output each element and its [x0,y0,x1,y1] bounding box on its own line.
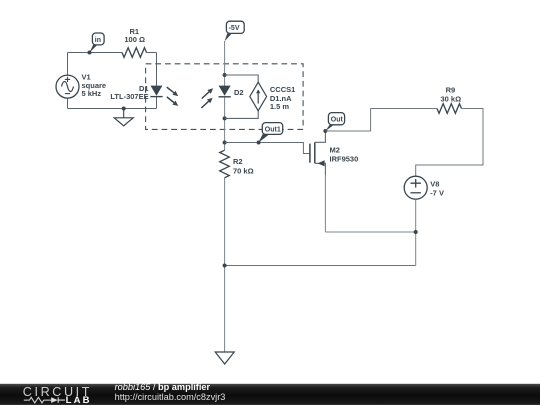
wire Out to R9 [325,109,437,132]
svg-text:-5V: -5V [229,25,240,32]
ground (left) [114,107,133,126]
node Out label [325,113,344,131]
wire R9 to V8 [416,109,483,177]
svg-text:in: in [95,37,101,44]
D2 label [234,88,244,97]
R2 value label [233,157,254,175]
V1 value label [82,72,107,98]
resistor R1 [122,48,147,58]
svg-text:LTL-307EE: LTL-307EE [110,92,148,101]
svg-text:70 kΩ: 70 kΩ [233,167,254,176]
R1 value label [124,27,145,44]
junction bottom rail [223,264,227,268]
MOSFET M2 [310,131,326,232]
svg-text:R9: R9 [446,85,456,94]
footer bar [0,384,540,405]
M2 value label [330,145,359,163]
svg-text:-7 V: -7 V [430,189,444,198]
D2 incoming light arrows [201,88,213,108]
resistor R2 [220,150,230,178]
wire Out1 to gate [225,143,310,154]
CCCS1 current source [225,75,267,118]
node in label [90,33,105,53]
D1 value label [110,84,148,101]
CCCS1 value label [270,85,295,111]
wire -5V rail [224,41,226,352]
R9 value label [440,85,461,103]
voltage source V1 [56,75,79,98]
V8 value label [430,179,444,197]
wire top-left loop [68,53,157,109]
svg-text:R2: R2 [233,157,243,166]
svg-text:30 kΩ: 30 kΩ [440,94,461,103]
svg-text:M2: M2 [330,145,340,154]
net -5V label [225,21,245,41]
wire bottom rail [225,265,416,267]
junction V8/M2 source [414,230,418,234]
svg-text:robbi165 / bp amplifier: robbi165 / bp amplifier [115,382,211,392]
footer title text [115,382,226,402]
junction Out1 rail [223,141,227,145]
ground (bottom) [215,352,234,364]
svg-text:100 Ω: 100 Ω [124,35,145,44]
resistor R9 [437,104,462,114]
junction -5V / CCCS top [223,73,227,77]
wire V8 to bottom rail [325,199,415,265]
svg-text:http://circuitlab.com/c8zvjr3: http://circuitlab.com/c8zvjr3 [115,392,226,402]
junction CCCS bottom [223,116,227,120]
svg-text:LAB: LAB [66,395,92,405]
LED D2 [219,86,231,97]
LED D1 [150,86,162,97]
svg-text:V8: V8 [430,179,439,188]
optocoupler dashed enclosure [146,64,304,130]
svg-text:Out: Out [331,117,344,124]
CircuitLab logo [23,385,92,405]
svg-text:1.5 m: 1.5 m [270,102,290,111]
svg-text:IRF9530: IRF9530 [330,154,359,163]
svg-text:5 kHz: 5 kHz [82,89,102,98]
svg-text:CCCS1: CCCS1 [270,85,295,94]
voltage source V8 [404,176,427,199]
node Out1 label [257,123,283,145]
svg-text:D2: D2 [234,88,244,97]
junction Out node [323,129,327,133]
node in junction dot [88,51,92,55]
svg-text:Out1: Out1 [265,126,281,133]
D1 emission arrows [167,87,178,106]
